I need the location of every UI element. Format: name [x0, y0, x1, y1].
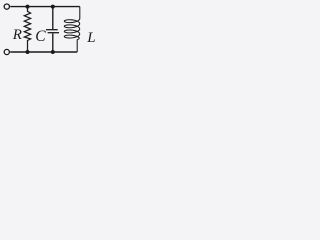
node bottom-left junction: [26, 50, 30, 54]
wire bottom rail: [10, 51, 77, 53]
svg-text:R: R: [12, 27, 22, 43]
resistor R: [24, 7, 30, 52]
wire top rail: [10, 6, 80, 8]
svg-text:L: L: [86, 30, 95, 46]
node top-right junction: [51, 5, 55, 9]
capacitor C: [46, 7, 59, 52]
inductor L: [64, 7, 80, 52]
node bottom-right junction: [51, 50, 55, 54]
top terminal: [4, 4, 9, 9]
bottom terminal: [4, 49, 9, 54]
svg-text:C: C: [35, 28, 46, 45]
node top-left junction: [26, 5, 30, 9]
